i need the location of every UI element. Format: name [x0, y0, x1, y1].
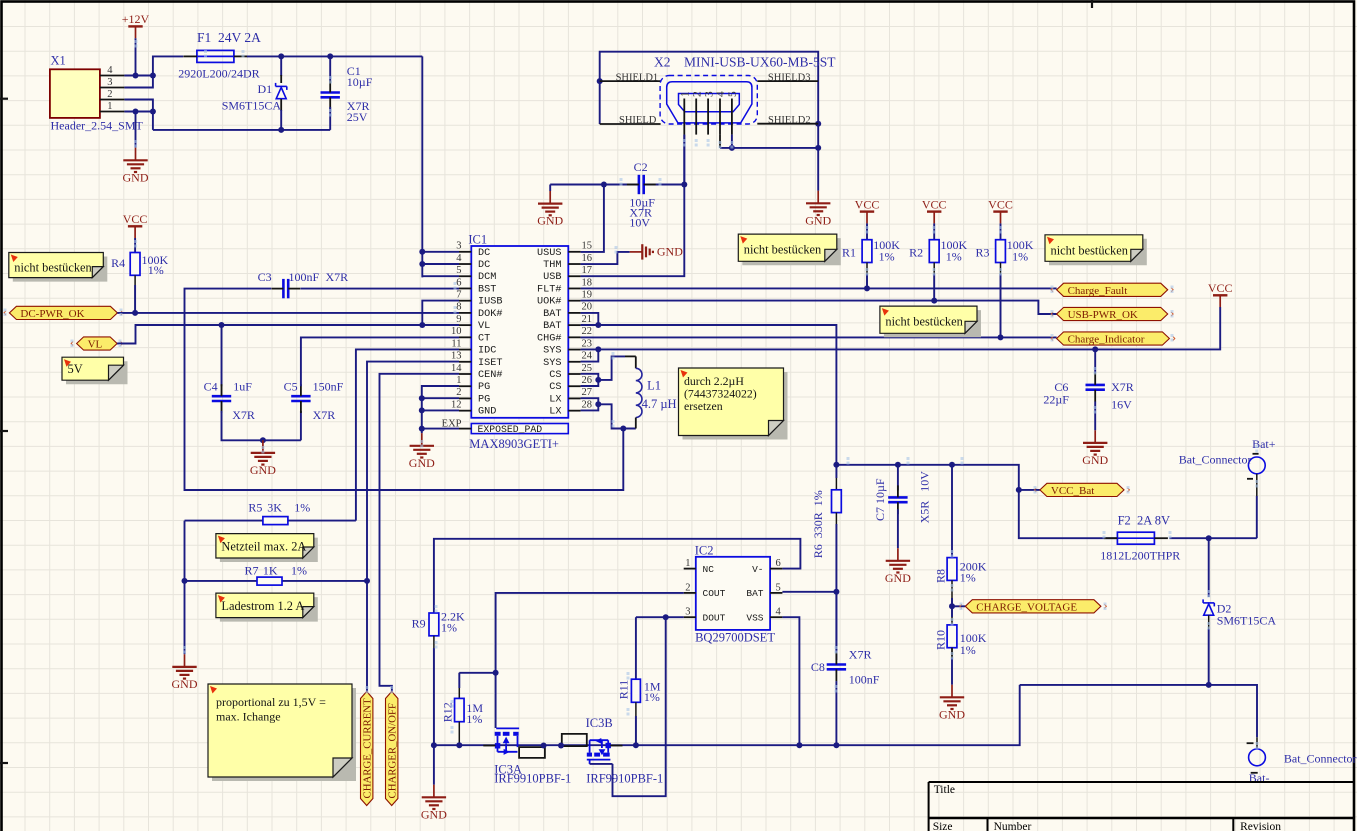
svg-text:150nF: 150nF [313, 380, 344, 394]
svg-text:2: 2 [456, 387, 461, 398]
svg-text:24: 24 [582, 351, 593, 362]
svg-text:2: 2 [691, 91, 703, 97]
svg-text:VCC_Bat: VCC_Bat [1051, 485, 1094, 497]
svg-text:X1: X1 [51, 54, 66, 68]
svg-text:VCC: VCC [1208, 281, 1233, 295]
svg-text:CHG#: CHG# [537, 333, 561, 344]
svg-text:X7R: X7R [313, 408, 336, 422]
svg-text:IRF9910PBF-1: IRF9910PBF-1 [586, 772, 663, 786]
svg-text:PG: PG [478, 394, 490, 405]
svg-text:1%: 1% [294, 501, 310, 515]
svg-text:4: 4 [107, 65, 113, 76]
svg-text:VSS: VSS [746, 612, 763, 623]
svg-text:1: 1 [680, 91, 692, 97]
svg-text:15: 15 [582, 241, 593, 252]
svg-text:10: 10 [451, 326, 462, 337]
svg-text:USUS: USUS [537, 248, 561, 259]
svg-text:GND: GND [805, 213, 831, 227]
svg-text:100nF: 100nF [849, 672, 880, 686]
svg-text:Ladestrom 1.2 A: Ladestrom 1.2 A [221, 599, 304, 613]
svg-text:1: 1 [107, 101, 112, 112]
svg-text:3: 3 [107, 77, 112, 88]
svg-text:R6 330R 1%: R6 330R 1% [811, 490, 825, 558]
svg-text:7: 7 [456, 289, 461, 300]
svg-text:SYS: SYS [543, 346, 561, 357]
svg-text:Charge_Indicator: Charge_Indicator [1068, 334, 1145, 346]
svg-text:GND: GND [123, 170, 149, 184]
svg-text:26: 26 [582, 375, 593, 386]
svg-text:6: 6 [456, 277, 461, 288]
svg-text:9: 9 [456, 314, 461, 325]
svg-text:19: 19 [582, 289, 593, 300]
svg-text:X5R 10V: X5R 10V [917, 471, 931, 524]
svg-text:3K: 3K [267, 501, 282, 515]
svg-text:1%: 1% [879, 249, 895, 263]
svg-text:X2 MINI-USB-UX60-MB-5ST: X2 MINI-USB-UX60-MB-5ST [654, 55, 836, 70]
svg-text:X7R: X7R [232, 408, 255, 422]
svg-text:MAX8903GETI+: MAX8903GETI+ [469, 437, 559, 451]
svg-text:IUSB: IUSB [478, 297, 502, 308]
svg-text:R1: R1 [842, 245, 856, 259]
svg-text:1%: 1% [148, 263, 164, 277]
svg-text:GND: GND [657, 245, 683, 259]
svg-text:VCC: VCC [922, 197, 947, 211]
svg-text:DC: DC [478, 248, 490, 259]
svg-text:3: 3 [703, 91, 715, 97]
svg-text:CT: CT [478, 333, 490, 344]
svg-text:SHIELD1: SHIELD1 [616, 73, 659, 84]
svg-text:GND: GND [537, 214, 563, 228]
svg-text:1%: 1% [441, 621, 457, 635]
svg-text:6: 6 [776, 558, 781, 569]
svg-text:DC-PWR_OK: DC-PWR_OK [20, 308, 84, 320]
svg-text:R9: R9 [412, 617, 426, 631]
svg-text:BAT: BAT [543, 309, 561, 320]
svg-text:max. Ichange: max. Ichange [216, 710, 281, 724]
svg-text:DC: DC [478, 260, 490, 271]
svg-text:16: 16 [582, 253, 593, 264]
svg-text:18: 18 [582, 277, 593, 288]
svg-text:Number: Number [994, 821, 1032, 831]
svg-text:13: 13 [451, 351, 462, 362]
svg-text:11: 11 [451, 338, 461, 349]
svg-text:2920L200/24DR: 2920L200/24DR [178, 67, 259, 81]
svg-text:R11: R11 [617, 680, 631, 700]
svg-text:CEN#: CEN# [478, 370, 502, 381]
svg-text:CS: CS [549, 382, 561, 393]
svg-text:DOK#: DOK# [478, 309, 502, 320]
svg-text:1812L200THPR: 1812L200THPR [1100, 548, 1180, 562]
svg-text:4: 4 [776, 607, 782, 618]
svg-text:COUT: COUT [703, 588, 726, 599]
svg-text:Bat_Connector: Bat_Connector [1284, 751, 1357, 765]
svg-text:C4: C4 [204, 380, 218, 394]
svg-text:5V: 5V [68, 362, 83, 376]
svg-text:1: 1 [685, 558, 690, 569]
svg-text:SM6T15CA: SM6T15CA [1217, 613, 1277, 627]
svg-text:Header_2.54_SMT: Header_2.54_SMT [51, 119, 144, 133]
svg-text:nicht bestücken: nicht bestücken [14, 261, 91, 275]
svg-text:ISET: ISET [478, 358, 502, 369]
svg-text:SYS: SYS [543, 358, 561, 369]
svg-text:28: 28 [582, 399, 593, 410]
svg-text:SHIELD: SHIELD [619, 115, 657, 126]
svg-text:21: 21 [582, 314, 593, 325]
svg-text:proportional zu 1,5V =: proportional zu 1,5V = [216, 695, 326, 709]
svg-text:25: 25 [582, 363, 593, 374]
svg-text:22µF: 22µF [1043, 392, 1069, 406]
svg-text:X7R: X7R [326, 270, 349, 284]
svg-text:nicht bestücken: nicht bestücken [744, 243, 821, 257]
svg-text:GND: GND [409, 456, 435, 470]
svg-text:VL: VL [478, 321, 490, 332]
svg-text:R5: R5 [248, 501, 262, 515]
svg-text:2: 2 [685, 582, 690, 593]
svg-text:Bat-: Bat- [1249, 771, 1270, 785]
svg-text:R7: R7 [245, 563, 259, 577]
svg-text:25V: 25V [347, 110, 368, 124]
svg-text:16V: 16V [1111, 398, 1132, 412]
svg-text:23: 23 [582, 338, 593, 349]
svg-text:2: 2 [107, 89, 112, 100]
svg-text:nicht bestücken: nicht bestücken [885, 315, 962, 329]
svg-text:R2: R2 [909, 245, 923, 259]
svg-text:CHARGE_VOLTAGE: CHARGE_VOLTAGE [976, 601, 1077, 613]
svg-text:IC3B: IC3B [586, 716, 613, 730]
svg-text:Charge_Fault: Charge_Fault [1068, 285, 1128, 297]
svg-text:IDC: IDC [478, 346, 496, 357]
svg-text:D1: D1 [258, 82, 273, 96]
svg-text:VL: VL [88, 339, 103, 351]
svg-text:1: 1 [456, 375, 461, 386]
svg-text:VCC: VCC [855, 197, 880, 211]
svg-text:100nF: 100nF [289, 270, 320, 284]
svg-text:BAT: BAT [543, 321, 561, 332]
svg-text:1uF: 1uF [233, 380, 252, 394]
svg-text:USB-PWR_OK: USB-PWR_OK [1068, 309, 1138, 321]
svg-text:1%: 1% [466, 712, 482, 726]
svg-text:IC2: IC2 [695, 544, 714, 558]
svg-text:DOUT: DOUT [703, 612, 726, 623]
svg-text:BST: BST [478, 284, 496, 295]
svg-text:BQ29700DSET: BQ29700DSET [695, 631, 775, 645]
svg-text:SHIELD3: SHIELD3 [768, 73, 811, 84]
svg-text:FLT#: FLT# [537, 284, 561, 295]
svg-text:Bat_Connector: Bat_Connector [1179, 453, 1252, 467]
svg-text:DCM: DCM [478, 272, 496, 283]
svg-text:Size: Size [933, 821, 953, 831]
svg-text:L1: L1 [647, 378, 661, 392]
svg-text:SHIELD2: SHIELD2 [768, 115, 811, 126]
svg-text:12: 12 [451, 399, 462, 410]
svg-text:8: 8 [456, 302, 461, 313]
svg-text:27: 27 [582, 387, 593, 398]
svg-text:GND: GND [939, 707, 965, 721]
svg-text:UOK#: UOK# [537, 297, 561, 308]
svg-text:nicht bestücken: nicht bestücken [1051, 243, 1128, 257]
svg-text:IRF9910PBF-1: IRF9910PBF-1 [494, 772, 571, 786]
svg-text:+12V: +12V [122, 12, 150, 26]
svg-text:GND: GND [172, 677, 198, 691]
svg-text:1%: 1% [960, 643, 976, 657]
svg-text:X7R: X7R [849, 647, 872, 661]
svg-text:GND: GND [1082, 453, 1108, 467]
svg-text:20: 20 [582, 302, 593, 313]
svg-text:NC: NC [703, 564, 715, 575]
svg-text:1%: 1% [1012, 249, 1028, 263]
svg-text:3: 3 [685, 607, 690, 618]
svg-text:Bat+: Bat+ [1252, 437, 1276, 451]
svg-text:GND: GND [885, 571, 911, 585]
svg-text:SM6T15CA: SM6T15CA [222, 99, 282, 113]
svg-text:Netzteil max. 2A: Netzteil max. 2A [221, 540, 306, 554]
svg-text:1K: 1K [263, 563, 278, 577]
svg-text:C3: C3 [258, 270, 272, 284]
svg-text:17: 17 [582, 265, 593, 276]
svg-text:R3: R3 [975, 245, 989, 259]
svg-text:C5: C5 [284, 380, 298, 394]
svg-text:LX: LX [549, 394, 561, 405]
svg-text:IC1: IC1 [468, 233, 487, 247]
svg-text:X7R: X7R [1111, 380, 1134, 394]
svg-text:C8: C8 [811, 660, 825, 674]
svg-text:R4: R4 [111, 256, 125, 270]
svg-text:4: 4 [715, 91, 727, 97]
svg-text:1%: 1% [644, 690, 660, 704]
svg-text:VCC: VCC [123, 212, 148, 226]
svg-text:CHARGER_ON/OFF: CHARGER_ON/OFF [387, 703, 399, 798]
svg-text:V-: V- [752, 564, 763, 575]
svg-text:GND: GND [478, 407, 496, 418]
svg-text:4: 4 [456, 253, 462, 264]
svg-text:22: 22 [582, 326, 593, 337]
svg-text:1%: 1% [291, 563, 307, 577]
svg-text:Title: Title [934, 784, 955, 796]
svg-text:C2: C2 [634, 160, 648, 174]
svg-text:THM: THM [543, 260, 561, 271]
svg-text:3: 3 [456, 241, 461, 252]
svg-text:R10: R10 [933, 630, 947, 650]
svg-text:CS: CS [549, 370, 561, 381]
svg-text:EXPOSED_PAD: EXPOSED_PAD [478, 424, 543, 435]
svg-text:CHARGE_CURRENT: CHARGE_CURRENT [362, 698, 374, 799]
svg-text:USB: USB [543, 272, 561, 283]
svg-text:BAT: BAT [746, 588, 763, 599]
svg-text:5: 5 [727, 91, 739, 97]
svg-text:4.7 µH: 4.7 µH [642, 397, 677, 411]
svg-text:VCC: VCC [988, 197, 1013, 211]
svg-text:R8: R8 [933, 569, 947, 583]
svg-text:GND: GND [250, 463, 276, 477]
svg-text:F1 24V 2A: F1 24V 2A [197, 30, 261, 45]
svg-text:PG: PG [478, 382, 490, 393]
svg-text:C7 10µF: C7 10µF [873, 478, 887, 521]
svg-text:LX: LX [549, 407, 561, 418]
svg-text:1%: 1% [960, 571, 976, 585]
svg-text:1%: 1% [946, 249, 962, 263]
svg-text:ersetzen: ersetzen [684, 399, 723, 413]
svg-text:F2 2A 8V: F2 2A 8V [1118, 514, 1170, 528]
svg-text:5: 5 [456, 265, 461, 276]
svg-text:Revision: Revision [1240, 821, 1281, 831]
svg-text:10µF: 10µF [347, 75, 373, 89]
svg-text:5: 5 [776, 582, 781, 593]
svg-text:GND: GND [421, 807, 447, 821]
svg-text:10V: 10V [629, 216, 650, 230]
svg-text:14: 14 [451, 363, 462, 374]
